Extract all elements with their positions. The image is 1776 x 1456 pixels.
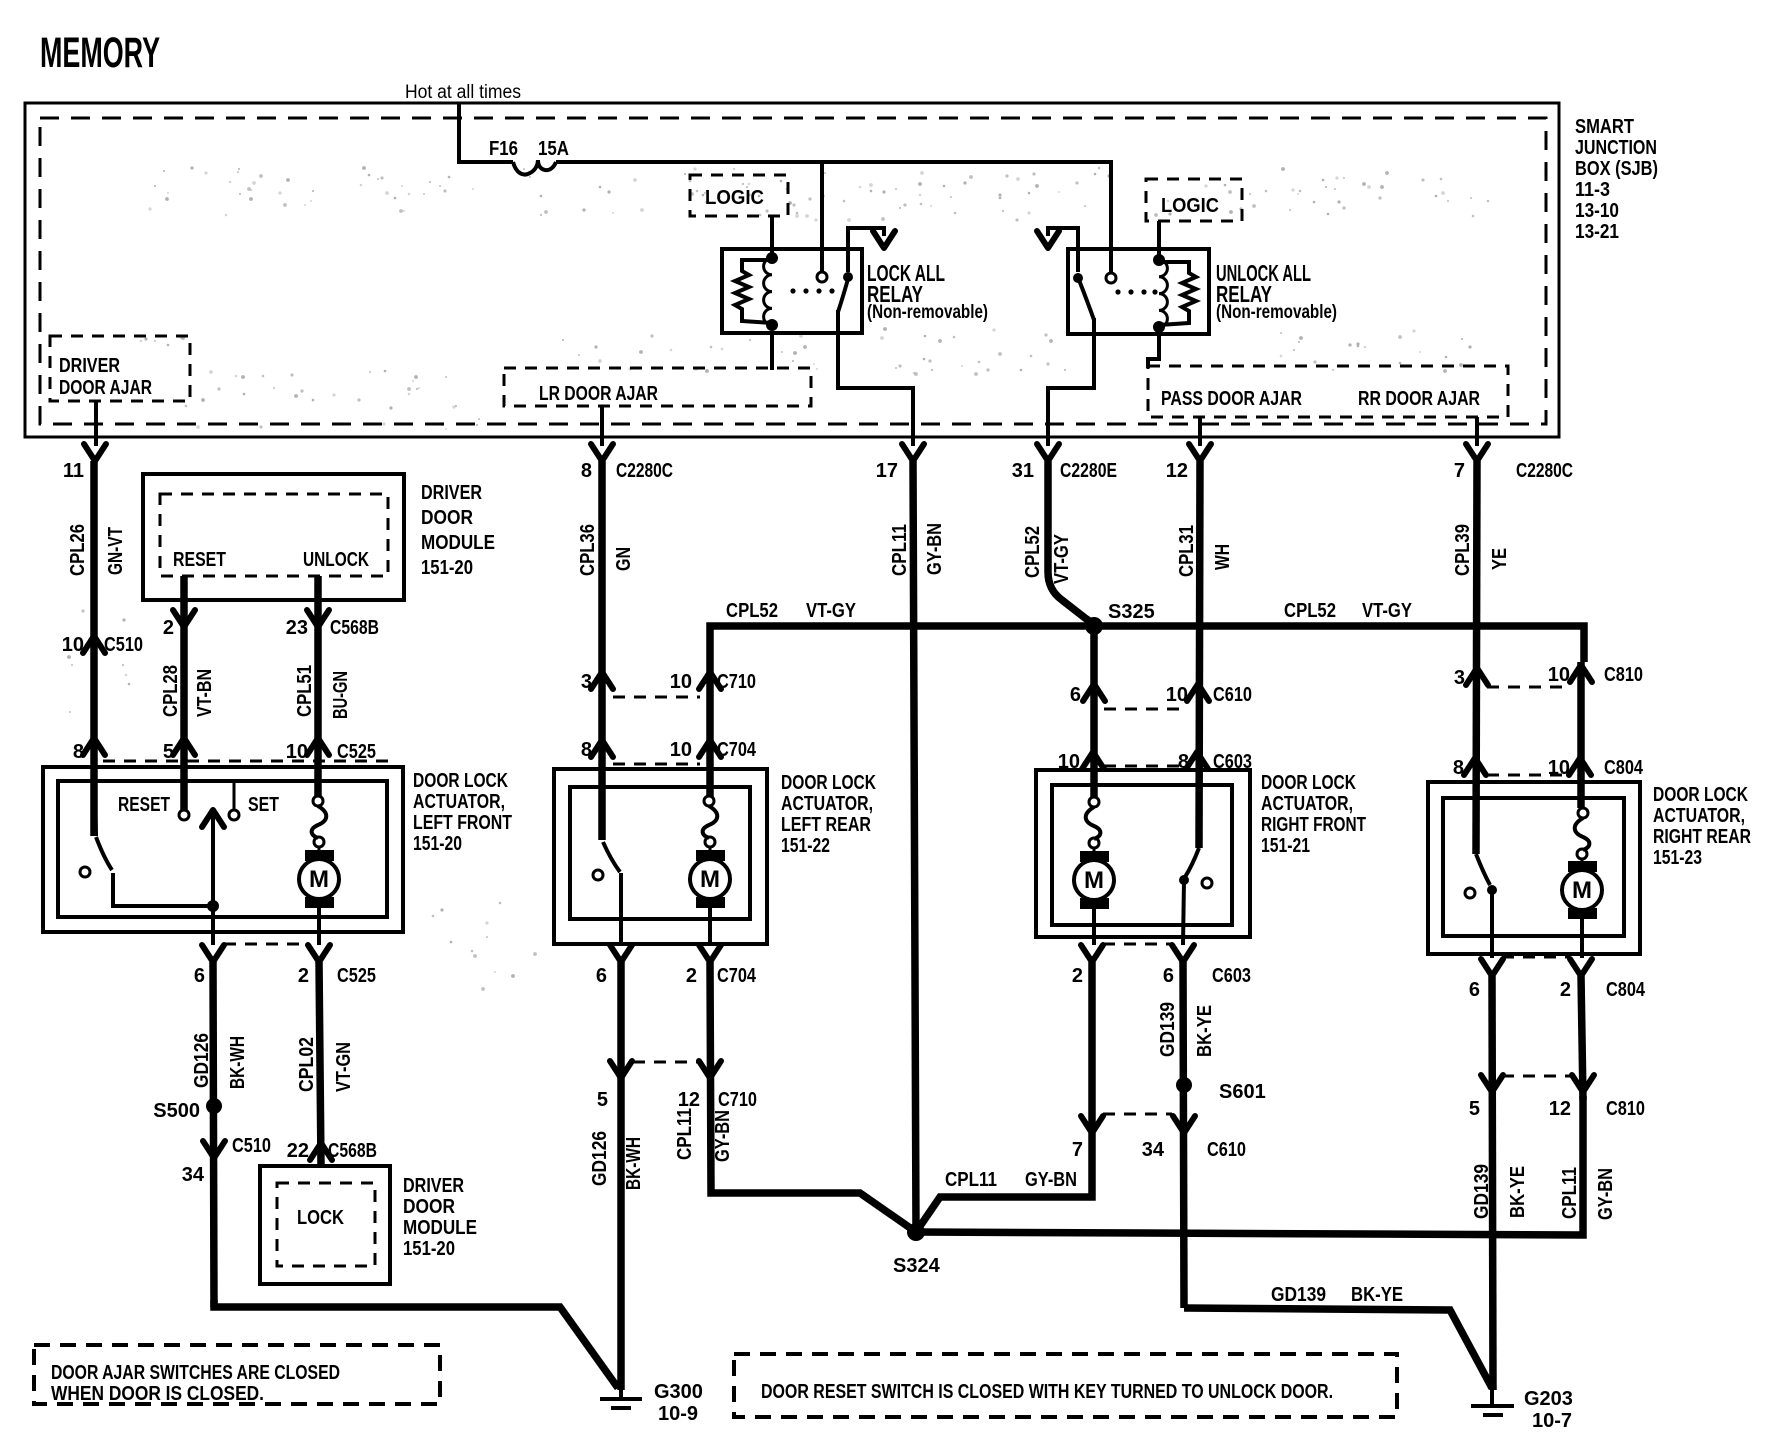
actuator RF outer box	[1036, 770, 1250, 937]
wire CPL52 VT-GY (pin 31 to S325)	[1048, 461, 1094, 626]
wire to pin 6 LF	[211, 906, 215, 945]
wire: feed branch to lock relay switch	[820, 162, 824, 272]
svg-text:GD126: GD126	[191, 1033, 213, 1088]
svg-text:ACTUATOR,: ACTUATOR,	[413, 791, 505, 813]
ajar switch output route LF	[113, 873, 213, 906]
actuator LR inner box	[570, 787, 750, 919]
connector C804 arrow pin 8	[1453, 757, 1486, 779]
contact dot (lock relay switch)	[843, 272, 853, 282]
svg-text:151-23: 151-23	[1653, 847, 1702, 869]
svg-text:S500: S500	[153, 1100, 200, 1122]
svg-text:C610: C610	[1213, 684, 1252, 706]
connector C603 arrow pin 10	[1058, 751, 1104, 773]
svg-text:VT-GN: VT-GN	[333, 1042, 355, 1092]
connector C810 arrow pin 3	[1454, 667, 1488, 689]
motor switch S-arm RF	[1086, 807, 1101, 839]
svg-text:(Non-removable): (Non-removable)	[867, 302, 988, 323]
svg-text:F16: F16	[489, 138, 518, 160]
splice S325	[1085, 601, 1155, 635]
svg-text:Hot at all times: Hot at all times	[405, 82, 521, 103]
svg-text:S601: S601	[1219, 1081, 1266, 1103]
svg-text:CPL52: CPL52	[1022, 526, 1044, 578]
RR pin 6 bottom arrow	[1469, 959, 1503, 1001]
svg-text:RIGHT FRONT: RIGHT FRONT	[1261, 814, 1366, 836]
svg-text:10: 10	[1166, 684, 1188, 706]
connector C804 arrow pin 10	[1548, 757, 1644, 779]
svg-text:GD126: GD126	[589, 1131, 611, 1186]
svg-text:5: 5	[1469, 1098, 1480, 1120]
svg-text:C2280E: C2280E	[1060, 460, 1117, 482]
svg-text:5: 5	[597, 1089, 608, 1111]
ajar switch output wire LR	[619, 873, 623, 945]
svg-text:LEFT REAR: LEFT REAR	[781, 814, 871, 836]
dotted actuation link (unlock relay)	[1115, 289, 1157, 294]
svg-text:RESET: RESET	[118, 794, 170, 816]
dashed connector line below RR actuator	[1502, 956, 1570, 959]
connector C710 arrow pin 10	[670, 671, 756, 693]
svg-text:BK-WH: BK-WH	[227, 1036, 249, 1089]
wire: fused feed rail to relays	[556, 162, 1111, 274]
splice S601	[1176, 1077, 1266, 1103]
ajar switch pivot dot RF	[1179, 875, 1189, 885]
motor lower circle RF	[1089, 838, 1099, 848]
svg-text:11: 11	[63, 460, 84, 482]
svg-text:DOOR LOCK: DOOR LOCK	[1261, 772, 1356, 794]
wire S324 to RF pin 7 riser	[916, 1148, 1092, 1232]
svg-text:2: 2	[1560, 979, 1571, 1001]
wire CPL11 GY-BN (RR pin 2 to S324 bus)	[1581, 976, 1583, 1100]
junction dot coil top (unlock)	[1153, 254, 1165, 266]
ajar switch arm LF	[96, 837, 112, 870]
svg-text:8: 8	[581, 739, 592, 761]
svg-text:12: 12	[1166, 460, 1188, 482]
svg-text:6: 6	[1469, 979, 1480, 1001]
svg-text:10: 10	[1548, 757, 1570, 779]
DRIVER DOOR MODULE box (upper)	[143, 474, 404, 600]
svg-text:13-21: 13-21	[1575, 221, 1619, 243]
svg-text:M: M	[700, 866, 720, 893]
motor switch S-arm LF	[312, 806, 327, 838]
pin 12 exit arrow	[1166, 437, 1211, 482]
wire CPL26 GN-VT (pin 11 to actuator pin 8)	[90, 461, 98, 836]
motor M1 LF	[299, 847, 339, 945]
svg-text:DOOR AJAR SWITCHES ARE CLOSED: DOOR AJAR SWITCHES ARE CLOSED	[51, 1362, 340, 1384]
connector C510 arrow pin 10	[62, 634, 143, 656]
switch arm (unlock relay)	[1079, 280, 1094, 320]
svg-text:151-22: 151-22	[781, 835, 830, 857]
svg-text:151-20: 151-20	[413, 833, 462, 855]
motor M3 RF	[1074, 848, 1114, 945]
ground G300	[600, 1381, 703, 1425]
actuator pin 10 arrow + C525	[286, 738, 376, 763]
svg-text:12: 12	[678, 1089, 700, 1111]
svg-text:C610: C610	[1207, 1139, 1246, 1161]
dashed connector line above LF actuator	[103, 760, 397, 763]
svg-text:M: M	[1572, 877, 1592, 904]
svg-text:CPL11: CPL11	[889, 524, 911, 576]
svg-text:C525: C525	[337, 965, 376, 987]
svg-text:34: 34	[182, 1164, 205, 1186]
svg-text:BK-YE: BK-YE	[1507, 1166, 1529, 1218]
smart junction box SJB outer border	[25, 103, 1559, 437]
wire: RR door ajar to pin 7	[1475, 417, 1479, 446]
svg-text:C2280C: C2280C	[1516, 460, 1573, 482]
svg-text:2: 2	[163, 617, 174, 639]
svg-text:MODULE: MODULE	[403, 1217, 477, 1239]
motor feed circle LF	[313, 796, 323, 806]
svg-text:WHEN DOOR IS CLOSED.: WHEN DOOR IS CLOSED.	[51, 1383, 264, 1405]
reset common arrow + wire LF	[202, 810, 224, 906]
label DOOR LOCK ACTUATOR RIGHT REAR 151-23	[1653, 784, 1751, 869]
connector C568B arrow pin 22	[287, 1140, 377, 1162]
svg-text:10-9: 10-9	[658, 1403, 698, 1425]
wire GD139 run to G203	[1184, 1308, 1492, 1388]
wire: lock relay coil to LR DOOR AJAR	[770, 333, 774, 370]
wire: LOGIC2 to unlock relay coil	[1157, 221, 1161, 258]
wire CPL11 GY-BN (pin 17 to S324)	[913, 461, 916, 1232]
wire GD139 BK-YE (RF pin 6 down)	[1183, 962, 1184, 1308]
svg-text:LOCK: LOCK	[297, 1207, 344, 1229]
svg-text:LOGIC: LOGIC	[1161, 195, 1219, 217]
wire CPL52 VT-GY horizontal bus	[710, 626, 1584, 672]
pin 31 exit arrow + C2280E	[1012, 437, 1117, 482]
connector C610 lower arrow pin 34	[1142, 1116, 1246, 1161]
junction dot coil bottom (unlock)	[1153, 321, 1165, 333]
scan noise speckles	[91, 167, 1445, 973]
actuator RF inner box	[1052, 785, 1232, 925]
svg-text:2: 2	[1072, 965, 1083, 987]
label UNLOCK ALL RELAY	[1216, 260, 1337, 323]
connector C810 lower arrow pin 12	[1549, 1075, 1645, 1120]
LF pin 2 bottom arrow + C525	[298, 945, 376, 987]
ajar switch contact circle LF	[80, 867, 90, 877]
connector C610 lower arrow pin 7	[1072, 1116, 1103, 1161]
svg-text:VT-GY: VT-GY	[1051, 533, 1073, 584]
LOGIC box 2 (unlock)	[1146, 179, 1242, 221]
svg-text:DOOR: DOOR	[421, 507, 473, 529]
wire CPL02 VT-GN (LF pin 2 down to lock module)	[319, 962, 321, 1166]
svg-text:DRIVER: DRIVER	[403, 1175, 464, 1197]
wire GD139 BK-YE (RR pin 6 to G203)	[1492, 976, 1493, 1390]
dashed connector line below LF actuator	[224, 943, 308, 946]
actuator pin 5 arrow	[163, 738, 195, 763]
svg-text:GN-VT: GN-VT	[105, 527, 127, 575]
wire CPL31 WH (pin 12 to RF pin 8)	[1199, 461, 1200, 848]
pin 8 exit arrow + C2280C	[581, 437, 673, 482]
label SMART JUNCTION BOX (SJB)	[1575, 116, 1658, 243]
svg-text:C510: C510	[232, 1135, 271, 1157]
svg-text:12: 12	[1549, 1098, 1571, 1120]
svg-text:CPL52: CPL52	[726, 600, 778, 622]
svg-text:151-20: 151-20	[403, 1238, 455, 1260]
svg-text:CPL52: CPL52	[1284, 600, 1336, 622]
svg-text:DOOR LOCK: DOOR LOCK	[781, 772, 876, 794]
svg-text:CPL11: CPL11	[1559, 1167, 1581, 1219]
connector C510 (lower) arrow pin 34	[182, 1135, 271, 1186]
label LOCK ALL RELAY	[867, 260, 988, 323]
coil (unlock relay)	[1159, 260, 1167, 327]
wire S324 to RR column	[916, 1096, 1583, 1235]
DRIVER DOOR MODULE box (lower)	[260, 1166, 390, 1284]
svg-text:SMART: SMART	[1575, 116, 1634, 138]
ajar switch LR: arm	[603, 842, 620, 872]
PASS / RR DOOR AJAR switch box	[1148, 366, 1508, 417]
junction dot coil top	[766, 252, 778, 264]
svg-text:S325: S325	[1108, 601, 1155, 623]
note box: door ajar switches	[34, 1345, 440, 1405]
wire C810 branch down (CPL52 to RR pin 10)	[1577, 662, 1585, 808]
motor feed circle RR	[1578, 808, 1588, 818]
svg-text:YE: YE	[1489, 548, 1511, 570]
svg-text:C510: C510	[104, 634, 143, 656]
svg-text:C704: C704	[717, 965, 757, 987]
motor lower circle RR	[1577, 849, 1587, 859]
wire: lock relay switch output to pin 17	[838, 310, 913, 446]
svg-text:3: 3	[581, 671, 592, 693]
svg-text:10: 10	[670, 739, 692, 761]
svg-text:C710: C710	[717, 671, 756, 693]
svg-text:RR DOOR AJAR: RR DOOR AJAR	[1358, 388, 1480, 410]
resistor (lock relay)	[735, 260, 772, 323]
svg-text:17: 17	[876, 460, 898, 482]
svg-text:VT-GY: VT-GY	[806, 600, 857, 622]
motor M4 RR	[1562, 859, 1602, 958]
svg-text:151-20: 151-20	[421, 557, 473, 579]
svg-text:C603: C603	[1212, 965, 1251, 987]
svg-text:10: 10	[1548, 664, 1570, 686]
contact dot (unlock relay switch)	[1073, 273, 1083, 283]
connector C704 arrow pin 10	[670, 739, 757, 761]
note box: door reset switch	[734, 1354, 1397, 1417]
svg-text:GN: GN	[613, 547, 635, 571]
label DOOR LOCK ACTUATOR LEFT REAR 151-22	[781, 772, 876, 857]
splice S500	[153, 1098, 222, 1122]
pin 17 exit arrow	[876, 437, 924, 482]
DRIVER DOOR MODULE inner dashed	[160, 494, 388, 576]
svg-text:CPL11: CPL11	[945, 1169, 997, 1191]
wire CPL36 GN (pin 8 to LR actuator pin 3/8)	[598, 461, 606, 840]
svg-text:23: 23	[286, 617, 308, 639]
svg-text:GY-BN: GY-BN	[924, 523, 946, 575]
svg-text:151-21: 151-21	[1261, 835, 1310, 857]
svg-text:G300: G300	[654, 1381, 703, 1403]
motor switch S-arm RR	[1575, 818, 1590, 850]
svg-text:LOGIC: LOGIC	[705, 187, 764, 209]
dashed connector line C610 lower	[1103, 1113, 1172, 1116]
wire CPL39 YE (pin 7 to RR pin 3/8)	[1476, 461, 1477, 854]
svg-text:31: 31	[1012, 460, 1034, 482]
svg-text:34: 34	[1142, 1139, 1165, 1161]
svg-text:11-3: 11-3	[1575, 179, 1610, 201]
actuator pin 8 arrow	[73, 738, 105, 763]
svg-text:10-7: 10-7	[1532, 1410, 1572, 1432]
svg-text:7: 7	[1072, 1139, 1083, 1161]
connector C610 arrow pin 6	[1070, 684, 1105, 706]
svg-text:6: 6	[596, 965, 607, 987]
svg-text:(Non-removable): (Non-removable)	[1216, 302, 1337, 323]
ajar switch contact circle RF	[1202, 878, 1212, 888]
RF pin 6 bottom arrow + C603	[1163, 945, 1251, 987]
svg-text:BK-WH: BK-WH	[623, 1137, 645, 1190]
LR pin 2 bottom arrow + C704	[686, 945, 757, 987]
dashed connector line C810 lower	[1502, 1075, 1570, 1078]
motor lower circle LR	[705, 837, 715, 847]
svg-text:7: 7	[1454, 460, 1465, 482]
wire: driver door ajar to pin 11	[94, 401, 98, 446]
svg-text:10: 10	[62, 634, 84, 656]
wire GD126 BK-WH (LF pin 6 down)	[213, 962, 214, 1307]
svg-text:GY-BN: GY-BN	[1025, 1169, 1077, 1191]
dashed connector line below RF actuator	[1103, 943, 1172, 946]
svg-text:C704: C704	[717, 739, 757, 761]
wire: pass door ajar to pin 12	[1198, 417, 1202, 446]
junction dot coil bottom	[766, 319, 778, 331]
dashed connector line C603	[1104, 765, 1186, 768]
svg-text:C804: C804	[1604, 757, 1644, 779]
svg-text:8: 8	[1453, 757, 1464, 779]
dashed connector line C804	[1487, 774, 1570, 777]
svg-text:M: M	[309, 866, 329, 893]
ajar switch contact circle LR	[593, 870, 603, 880]
connector pin 3 arrow (C710 level)	[581, 671, 613, 693]
terminal circle (unlock relay switch feed)	[1106, 273, 1116, 283]
LR DOOR AJAR switch box	[504, 368, 811, 406]
smart junction box SJB inner dashed border	[40, 118, 1546, 424]
dotted actuation link (lock relay)	[790, 288, 834, 293]
svg-text:CPL28: CPL28	[160, 665, 182, 717]
svg-text:6: 6	[1163, 965, 1174, 987]
label DOOR LOCK ACTUATOR LEFT FRONT 151-20	[413, 770, 512, 855]
svg-text:10: 10	[670, 671, 692, 693]
svg-text:C568B: C568B	[330, 617, 379, 639]
wire: hot feed drop from SJB top	[459, 104, 513, 162]
svg-text:2: 2	[686, 965, 697, 987]
svg-text:G203: G203	[1524, 1388, 1573, 1410]
resistor (unlock relay)	[1159, 262, 1196, 325]
svg-text:ACTUATOR,: ACTUATOR,	[1653, 805, 1745, 827]
svg-text:LR DOOR AJAR: LR DOOR AJAR	[539, 383, 658, 405]
motor feed circle LR	[704, 796, 714, 806]
svg-text:6: 6	[1070, 684, 1081, 706]
svg-text:8: 8	[73, 741, 84, 763]
svg-text:C810: C810	[1606, 1098, 1645, 1120]
fuse F16 15A	[513, 160, 556, 175]
wire RF pin2 to C610 pin 7	[1088, 962, 1096, 1148]
ajar switch LF: pivot wire	[94, 754, 96, 836]
module reset output arrow pin 2	[163, 610, 195, 639]
svg-text:LEFT FRONT: LEFT FRONT	[413, 812, 512, 834]
svg-text:6: 6	[194, 965, 205, 987]
RR pin 2 bottom arrow + C804	[1560, 959, 1646, 1001]
svg-text:VT-GY: VT-GY	[1362, 600, 1413, 622]
wire S325 down to RF pin 10	[1090, 626, 1098, 797]
svg-text:BK-YE: BK-YE	[1194, 1005, 1216, 1057]
svg-text:MEMORY: MEMORY	[40, 29, 160, 77]
svg-text:DRIVER: DRIVER	[421, 482, 482, 504]
svg-text:RESET: RESET	[173, 549, 226, 571]
relay K1 LOCK ALL RELAY box	[722, 249, 862, 333]
wire: unlock relay coil to PASS DOOR AJAR	[1148, 334, 1159, 368]
svg-text:C710: C710	[718, 1089, 757, 1111]
pin 11 exit arrow	[63, 437, 106, 482]
motor M2 LR	[690, 847, 730, 945]
terminal circle (lock relay switch feed)	[817, 272, 827, 282]
svg-text:CPL26: CPL26	[67, 524, 89, 576]
hook arrow (lock relay)	[848, 228, 884, 272]
junction dot LF	[207, 900, 219, 912]
connector C810 lower arrow pin 5	[1469, 1075, 1503, 1120]
module unlock output arrow pin 23 + C568B	[286, 610, 379, 639]
svg-text:8: 8	[581, 460, 592, 482]
svg-text:22: 22	[287, 1140, 309, 1162]
connector C810 arrow pin 10	[1548, 664, 1643, 686]
ajar switch output wire RF	[1183, 880, 1184, 945]
ground G203	[1471, 1385, 1573, 1432]
svg-text:BK-YE: BK-YE	[1351, 1284, 1403, 1306]
svg-text:C810: C810	[1604, 664, 1643, 686]
svg-text:CPL31: CPL31	[1176, 525, 1198, 577]
dashed connector line C710 lower	[633, 1061, 700, 1064]
connector C710 lower arrow pin 5	[597, 1061, 632, 1111]
dashed connector line C710	[613, 696, 700, 699]
svg-text:GY-BN: GY-BN	[1595, 1168, 1617, 1220]
label DRIVER DOOR MODULE 151-20 (upper)	[421, 482, 495, 579]
wire GD126 run to ground G300	[214, 1300, 618, 1388]
hook arrow (unlock relay)	[1048, 228, 1078, 272]
svg-text:GD139: GD139	[1271, 1284, 1326, 1306]
label DRIVER DOOR MODULE 151-20 (lower)	[403, 1175, 477, 1260]
svg-text:CPL36: CPL36	[577, 524, 599, 576]
svg-text:CPL39: CPL39	[1452, 524, 1474, 576]
LR pin 6 bottom arrow	[596, 945, 632, 987]
connector C603 arrow pin 8	[1178, 751, 1252, 773]
set terminal stub + circle LF	[229, 781, 239, 820]
dashed connector line C704	[613, 763, 700, 766]
svg-text:VT-BN: VT-BN	[194, 669, 216, 717]
wire: unlock relay switch output to pin 31	[1048, 318, 1094, 446]
svg-text:DOOR AJAR: DOOR AJAR	[59, 377, 152, 399]
svg-text:DOOR RESET SWITCH IS CLOSED WI: DOOR RESET SWITCH IS CLOSED WITH KEY TUR…	[761, 1381, 1333, 1403]
svg-text:ACTUATOR,: ACTUATOR,	[1261, 793, 1353, 815]
dashed connector line C610	[1104, 708, 1188, 711]
ajar switch arm RF	[1185, 848, 1199, 877]
dashed connector line C810	[1487, 686, 1570, 689]
label DOOR LOCK ACTUATOR RIGHT FRONT 151-21	[1261, 772, 1366, 857]
DRIVER DOOR AJAR switch box	[50, 336, 190, 401]
motor feed circle RF	[1089, 797, 1099, 807]
svg-text:MODULE: MODULE	[421, 532, 495, 554]
svg-text:CPL11: CPL11	[674, 1108, 696, 1160]
pin 7 exit arrow + C2280C	[1454, 437, 1573, 482]
LOGIC box 1 (lock)	[690, 175, 788, 216]
ajar switch output wire RR	[1490, 890, 1494, 958]
actuator RR inner box	[1443, 798, 1624, 936]
svg-text:PASS DOOR AJAR: PASS DOOR AJAR	[1161, 388, 1302, 410]
svg-text:3: 3	[1454, 667, 1465, 689]
motor lower circle LF	[314, 837, 324, 847]
svg-text:GD139: GD139	[1157, 1002, 1179, 1057]
svg-text:BU-GN: BU-GN	[330, 671, 352, 719]
LF pin 6 bottom arrow	[194, 945, 224, 987]
wire CPL28 VT-BN (module RESET to actuator pin 5)	[180, 576, 188, 810]
svg-text:C568B: C568B	[328, 1140, 377, 1162]
ajar switch arm RR	[1476, 854, 1490, 885]
wire GD126 BK-WH (LR pin 6 down to G300)	[617, 962, 625, 1390]
svg-text:13-10: 13-10	[1575, 200, 1619, 222]
svg-text:DRIVER: DRIVER	[59, 355, 120, 377]
svg-text:SET: SET	[248, 794, 279, 816]
svg-text:M: M	[1084, 867, 1104, 894]
